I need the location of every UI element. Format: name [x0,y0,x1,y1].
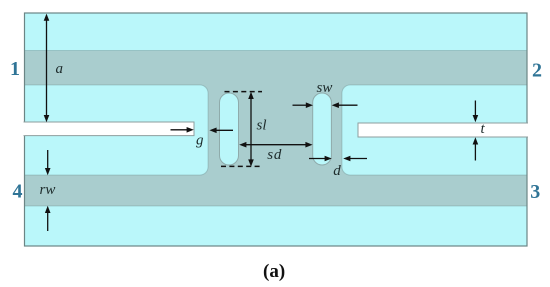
dashed extension line at bottom of left slot [221,165,263,167]
svg-text:3: 3 [530,181,540,203]
svg-text:g: g [196,133,204,149]
dimension arrows sw (slot width, arrows pointing inward) [293,102,358,108]
dimension arrows rw (down arrow above band, up arrow below band) [45,150,51,231]
svg-text:sl: sl [257,118,267,134]
left vertical slot (stadium) in central column [220,93,239,165]
dimension arrows t (white slot thickness) [473,101,479,161]
svg-text:rw: rw [40,182,56,198]
outer boundary stroke of substrate [25,13,528,246]
dimension arrow sd (horizontal double arrow between slots) [239,142,312,148]
svg-text:2: 2 [532,59,542,81]
svg-text:sd: sd [267,147,282,163]
dashed extension line at top of left slot [225,91,263,93]
svg-text:a: a [56,61,64,77]
microstrip H-shaped line (top feed line, bottom feed line, central stub column with fillets) [25,51,528,207]
svg-text:(a): (a) [263,261,285,282]
right vertical slot (stadium) in central column [313,93,332,165]
dimension arrow a (vertical double arrow) [44,14,50,123]
right horizontal white slot (open at right edge) [358,123,528,137]
dimension arrows g (gap between feed slot end and column) [171,127,234,133]
svg-text:4: 4 [13,181,23,203]
dimension arrows d (distance from right slot to column edge) [309,156,367,162]
left horizontal white slot (open at left edge) [24,122,195,136]
svg-text:1: 1 [10,58,20,80]
svg-text:d: d [333,163,341,179]
svg-text:sw: sw [317,80,333,96]
dimension arrow sl (vertical double arrow for slot length) [248,92,254,167]
substrate / ground plane (light cyan base rectangle) [25,13,528,246]
